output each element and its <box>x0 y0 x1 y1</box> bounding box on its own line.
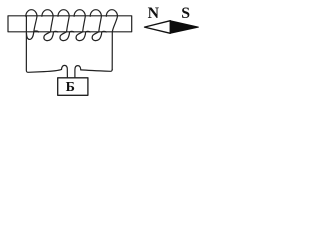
coil turn 1 <box>26 10 39 40</box>
right terminal hook <box>75 66 81 78</box>
compass needle south half (white outline) <box>145 21 171 34</box>
coil turn 3 <box>58 10 74 41</box>
coil turn 4 <box>74 10 90 41</box>
battery box <box>58 78 88 96</box>
left terminal hook <box>62 65 68 77</box>
coil turn 5 <box>90 10 106 41</box>
left lead wire <box>26 16 61 73</box>
coil turn 6 and right lead wire <box>106 10 117 70</box>
svg-text:Б: Б <box>66 80 75 95</box>
svg-text:S: S <box>181 5 190 22</box>
iron core bar <box>8 16 132 32</box>
compass needle north half (black) <box>170 21 198 34</box>
svg-text:N: N <box>148 5 160 22</box>
coil turn 2 <box>42 10 58 41</box>
wire from hook to right lead <box>81 69 112 71</box>
